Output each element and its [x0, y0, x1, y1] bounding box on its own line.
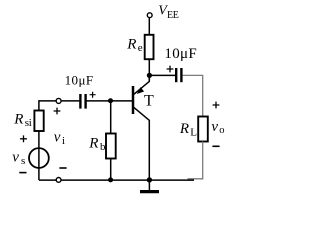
wire node A to C2 — [149, 74, 175, 76]
source vs — [29, 148, 49, 168]
capacitor C1 — [79, 94, 81, 109]
plus C2 — [167, 66, 174, 73]
svg-text:R: R — [88, 135, 98, 151]
svg-text:o: o — [219, 125, 224, 136]
svg-text:10μF: 10μF — [65, 73, 94, 88]
wire Rsi top corner — [38, 100, 40, 111]
node Rb bottom — [108, 177, 113, 182]
resistor Re — [145, 35, 154, 59]
svg-text:EE: EE — [167, 10, 179, 21]
wire base — [110, 101, 112, 134]
svg-text:L: L — [190, 126, 197, 138]
svg-text:R: R — [13, 112, 23, 128]
node A — [147, 73, 152, 78]
svg-text:v: v — [211, 119, 218, 135]
plus v_s — [20, 135, 27, 142]
minus v_o — [212, 145, 219, 147]
terminal vi top — [56, 98, 61, 103]
svg-text:i: i — [62, 135, 65, 147]
svg-text:s: s — [21, 155, 25, 167]
minus v_i — [59, 167, 66, 169]
svg-text:R: R — [179, 121, 189, 137]
svg-text:b: b — [100, 141, 106, 153]
node base — [108, 98, 113, 103]
wire C2 to RL (gray loop top) — [183, 75, 203, 116]
capacitor C2 — [175, 68, 177, 82]
wire Re to node A — [148, 60, 150, 81]
plus v_i — [54, 108, 61, 115]
resistor Rb — [106, 134, 116, 159]
terminal vi bottom — [56, 178, 61, 183]
plus v_o — [213, 102, 220, 109]
svg-text:T: T — [144, 92, 154, 109]
node ground — [147, 177, 152, 182]
plus C1 — [90, 92, 96, 98]
resistor RL — [198, 117, 208, 142]
svg-text:v: v — [54, 130, 61, 146]
wire through vs — [38, 131, 40, 180]
svg-text:v: v — [12, 149, 19, 165]
wire VEE to Re — [148, 18, 150, 35]
transistor T bar — [132, 86, 135, 114]
svg-text:10μF: 10μF — [164, 46, 197, 62]
transistor collector — [134, 107, 150, 180]
wire input top — [39, 100, 80, 102]
emitter arrow — [137, 87, 144, 94]
ground — [148, 180, 150, 190]
bottom rail — [39, 179, 194, 181]
transistor emitter — [134, 74, 150, 94]
wire RL to bottom (gray loop bottom) — [188, 142, 203, 179]
resistor Rsi — [34, 111, 43, 132]
minus v_s — [19, 172, 26, 174]
svg-text:e: e — [138, 42, 143, 54]
svg-text:R: R — [126, 36, 136, 52]
wire Rb bottom — [110, 159, 112, 181]
terminal VEE — [147, 13, 152, 18]
svg-text:si: si — [25, 117, 32, 129]
